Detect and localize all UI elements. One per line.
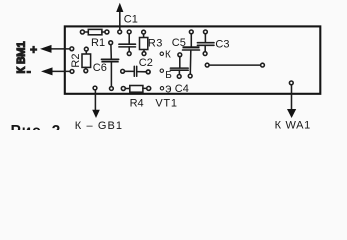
svg-text:R3: R3 bbox=[148, 37, 163, 49]
capacitor C5 bbox=[189, 30, 193, 34]
svg-text:C1: C1 bbox=[124, 13, 138, 25]
svg-text:C2: C2 bbox=[139, 57, 153, 69]
svg-text:К WA1: К WA1 bbox=[275, 120, 311, 130]
svg-text:C6: C6 bbox=[93, 62, 107, 74]
svg-text:К – GB1: К – GB1 bbox=[75, 120, 123, 130]
capacitor C4 bbox=[178, 53, 182, 57]
node pad WA1 bbox=[289, 81, 293, 85]
wire WA1 down bbox=[291, 85, 293, 109]
arrow to BM1 plus bbox=[40, 45, 52, 53]
wire - line to BM1 minus pad bbox=[50, 70, 70, 72]
svg-text:Рис. 2: Рис. 2 bbox=[11, 123, 62, 130]
svg-text:+: + bbox=[30, 44, 37, 56]
arrow to BM1 minus bbox=[41, 67, 53, 75]
resistor R4 bbox=[121, 87, 125, 91]
node pad GB1 bbox=[93, 86, 97, 90]
svg-text:К: К bbox=[165, 49, 171, 60]
transistor VT1 pad K bbox=[160, 52, 163, 55]
svg-text:Б: Б bbox=[165, 70, 172, 81]
node pad BM1 plus bbox=[70, 47, 74, 51]
capacitor C1 arrow out (top) bbox=[119, 11, 121, 31]
capacitor C3 bbox=[204, 30, 208, 34]
wire GB1 down bbox=[94, 90, 96, 110]
svg-text:VT1: VT1 bbox=[155, 97, 177, 109]
svg-text:R1: R1 bbox=[91, 37, 105, 49]
resistor R2 bbox=[84, 47, 88, 51]
resistor R1 bbox=[80, 30, 84, 34]
wire link (jumper) bbox=[205, 63, 209, 67]
svg-text:К ВМ1: К ВМ1 bbox=[16, 41, 28, 73]
capacitor C1 bbox=[127, 30, 131, 34]
wire + line to BM1 plus pad bbox=[49, 48, 70, 50]
svg-text:C3: C3 bbox=[215, 39, 229, 51]
transistor VT1 pad B bbox=[160, 69, 163, 72]
node pad C1 arrow bbox=[118, 30, 122, 34]
transistor VT1 pad E bbox=[160, 87, 163, 90]
capacitor C6 bbox=[109, 41, 113, 45]
svg-text:C4: C4 bbox=[175, 83, 189, 95]
svg-text:R2: R2 bbox=[70, 54, 82, 68]
svg-text:C5: C5 bbox=[172, 37, 186, 49]
node pad BM1 minus bbox=[70, 70, 74, 74]
resistor R3 bbox=[142, 30, 146, 34]
board outline bbox=[65, 26, 320, 93]
svg-text:э: э bbox=[165, 82, 171, 96]
capacitor C2 bbox=[121, 69, 125, 73]
svg-text:R4: R4 bbox=[130, 97, 144, 109]
